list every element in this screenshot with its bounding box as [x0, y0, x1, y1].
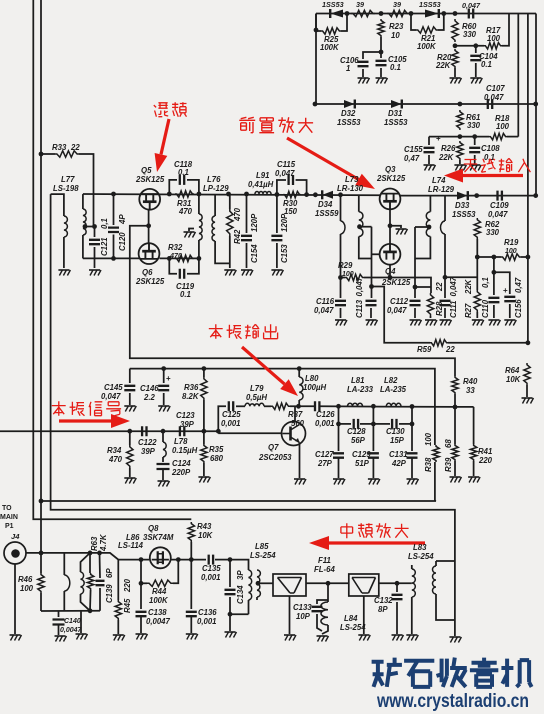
- svg-text:LR-130: LR-130: [337, 184, 364, 193]
- svg-text:C130: C130: [386, 427, 405, 436]
- svg-text:68: 68: [444, 439, 453, 448]
- svg-text:33: 33: [466, 386, 475, 395]
- svg-text:C138: C138: [148, 608, 167, 617]
- svg-text:D32: D32: [341, 109, 356, 118]
- svg-text:2SK125: 2SK125: [381, 278, 411, 287]
- ground C132: [392, 634, 403, 636]
- resistor R63 4.7K: [89, 553, 91, 573]
- capacitor C126 0.001: [315, 401, 319, 411]
- wire AGC diode row: [315, 103, 536, 105]
- svg-text:0.1: 0.1: [180, 290, 191, 299]
- svg-text:22: 22: [70, 143, 80, 152]
- svg-text:39P: 39P: [141, 447, 156, 456]
- red label 前置放大: [239, 117, 255, 132]
- svg-text:0,047: 0,047: [355, 276, 364, 296]
- ground C112: [410, 319, 421, 321]
- svg-text:Q8: Q8: [148, 524, 159, 533]
- red label 中频放大: [341, 523, 353, 538]
- svg-text:C110: C110: [481, 299, 490, 318]
- svg-text:L82: L82: [384, 376, 398, 385]
- svg-text:L79: L79: [250, 384, 264, 393]
- svg-text:LA-233: LA-233: [347, 385, 374, 394]
- svg-text:120P: 120P: [250, 213, 259, 232]
- capacitor C107 0.047: [488, 99, 492, 109]
- wire oscillator jog: [218, 406, 226, 431]
- wire link ground stub: [390, 226, 401, 228]
- svg-text:39: 39: [393, 0, 401, 9]
- resistor R43 10K: [188, 522, 194, 542]
- capacitor C138 0.0047: [136, 612, 147, 616]
- svg-text:27P: 27P: [317, 459, 333, 468]
- svg-text:C155: C155: [404, 145, 423, 154]
- resistor R23 10: [378, 19, 384, 37]
- svg-text:LR-129: LR-129: [428, 185, 455, 194]
- wire J4 ground leg: [14, 564, 16, 634]
- wire Q7 base row: [218, 432, 281, 434]
- svg-text:J4: J4: [11, 532, 20, 541]
- ground R20: [450, 77, 461, 79]
- wire box2 ground leg: [363, 596, 365, 634]
- svg-text:C133: C133: [293, 603, 312, 612]
- svg-text:56P: 56P: [351, 436, 366, 445]
- resistor R21 100K loop: [411, 14, 416, 31]
- ground L77 primary: [58, 269, 69, 271]
- svg-text:C115: C115: [277, 160, 296, 169]
- wire J4 row: [26, 553, 149, 560]
- svg-text:R42: R42: [233, 229, 242, 244]
- capacitor C125 0.001: [229, 401, 233, 411]
- svg-text:R34: R34: [107, 446, 122, 455]
- svg-text:L91: L91: [256, 171, 269, 180]
- ground C138: [136, 633, 147, 635]
- svg-text:0,047: 0,047: [314, 306, 334, 315]
- resistor R41 220: [473, 407, 475, 444]
- inductor L77 LS-198 primary: [51, 194, 64, 216]
- svg-text:100: 100: [342, 271, 354, 278]
- capacitor C111 0.047: [440, 301, 451, 305]
- svg-text:R40: R40: [463, 377, 478, 386]
- resistor R34 470: [129, 431, 131, 445]
- svg-text:LS-254: LS-254: [340, 623, 366, 632]
- wire box2 output: [379, 582, 412, 584]
- ground C153: [271, 269, 282, 271]
- svg-text:www.crystalradio.cn: www.crystalradio.cn: [376, 691, 529, 712]
- resistor R64 10K: [524, 363, 530, 385]
- svg-text:330: 330: [467, 121, 481, 130]
- ground C113: [366, 319, 377, 321]
- svg-text:R41: R41: [478, 447, 492, 456]
- inductor L80 100uH: [297, 366, 302, 371]
- capacitor C112 0.047: [414, 287, 416, 298]
- wire preamp output row: [400, 195, 536, 197]
- wire L85 output: [256, 581, 261, 586]
- capacitor C135 0.001: [209, 555, 213, 565]
- inductor L76 LP-129 primary: [198, 194, 200, 214]
- svg-text:470: 470: [233, 207, 242, 222]
- diode D31 1SS53: [391, 100, 402, 108]
- svg-text:2SK125: 2SK125: [135, 277, 165, 286]
- svg-text:4P: 4P: [118, 214, 127, 225]
- svg-text:8.2K: 8.2K: [182, 392, 200, 401]
- ground C133/L84: [317, 635, 328, 637]
- capacitor C123 39P: [180, 426, 184, 436]
- ground C154: [241, 269, 252, 271]
- svg-text:0,0047: 0,0047: [60, 627, 83, 634]
- wire FL link: [306, 582, 349, 584]
- capacitor C108 0.1: [474, 137, 476, 145]
- ground C127: [333, 478, 344, 480]
- capacitor C120 4P: [111, 192, 116, 197]
- red arrow IF: [329, 541, 425, 544]
- wire C125-L79: [236, 405, 245, 407]
- node mixer drain joints: [167, 192, 172, 197]
- wire supply bus x=528: [527, 14, 529, 344]
- svg-text:100K: 100K: [320, 43, 340, 52]
- wire Q4 gate line: [371, 227, 373, 287]
- capacitor C134 3P: [229, 560, 231, 587]
- node L73 primary top: [338, 192, 343, 197]
- capacitor C124 220P: [157, 464, 170, 469]
- capacitor C136 0.001: [190, 560, 192, 609]
- svg-text:22K: 22K: [464, 278, 473, 295]
- wire bus1: [41, 500, 436, 502]
- wire bus x=536: [535, 14, 537, 196]
- wire L74 primary drop: [414, 227, 416, 287]
- red label 天线输入: [464, 160, 477, 173]
- svg-text:100: 100: [487, 34, 501, 43]
- capacitor C145 0.047: [129, 369, 131, 383]
- capacitor C109 0.047: [498, 191, 502, 201]
- node AGC tap: [313, 192, 318, 197]
- svg-text:R26: R26: [441, 144, 456, 153]
- diode 1SS53 (top left): [331, 10, 344, 18]
- svg-text:3SK74M: 3SK74M: [143, 533, 174, 542]
- capacitor C146 2.2 electrolytic: [161, 366, 166, 371]
- svg-text:R29: R29: [338, 261, 353, 270]
- svg-text:150: 150: [284, 207, 298, 216]
- capacitor C131 42P: [407, 453, 418, 457]
- svg-text:C129: C129: [352, 450, 371, 459]
- svg-text:C121: C121: [100, 237, 109, 256]
- wire R33 row: [41, 153, 55, 155]
- resistor R19 100: [501, 254, 521, 260]
- wire Q4 source: [389, 265, 391, 278]
- svg-text:MAIN: MAIN: [0, 514, 18, 521]
- svg-text:C156: C156: [514, 299, 523, 318]
- svg-text:1SS53: 1SS53: [322, 0, 344, 9]
- inductor L85 secondary: [257, 570, 260, 597]
- red arrow antenna input: [463, 174, 523, 177]
- svg-text:470: 470: [169, 251, 182, 260]
- ground IF bus: [449, 636, 460, 638]
- capacitor C127 27P: [333, 453, 344, 457]
- svg-text:LS-254: LS-254: [250, 551, 276, 560]
- ground C131: [407, 478, 418, 480]
- wire Q3-Q4 link: [389, 209, 391, 244]
- capacitor C115 0.047 loop: [277, 180, 286, 195]
- svg-text:3P: 3P: [236, 570, 245, 580]
- inductor L74 secondary: [444, 196, 446, 221]
- svg-text:C132: C132: [374, 596, 393, 605]
- red label 混频: [154, 103, 168, 117]
- node Q7 collector: [296, 404, 301, 409]
- svg-text:R35: R35: [209, 445, 224, 454]
- wire mixer source rail: [83, 257, 139, 259]
- ground Q3/Q4 link: [396, 228, 407, 230]
- red arrow oscillator in: [59, 419, 111, 422]
- resistor R39 68: [454, 407, 456, 444]
- svg-text:LS-254: LS-254: [408, 552, 434, 561]
- wire top AGC rail: [316, 13, 536, 15]
- svg-text:C122: C122: [138, 438, 157, 447]
- svg-text:100: 100: [424, 432, 433, 446]
- wire Q5-Q6 link: [148, 210, 150, 244]
- svg-text:4.7K: 4.7K: [99, 533, 108, 552]
- svg-text:0,047: 0,047: [462, 1, 481, 10]
- wire R19 row: [477, 256, 501, 258]
- svg-text:R36: R36: [184, 383, 199, 392]
- capacitor C132 8P: [396, 583, 398, 592]
- wire L77 tap: [84, 226, 95, 228]
- capacitor C106 1: [363, 52, 381, 59]
- svg-text:2SK125: 2SK125: [135, 175, 165, 184]
- svg-text:39P: 39P: [180, 420, 195, 429]
- svg-text:C136: C136: [198, 608, 217, 617]
- transistor Q4 2SK125: [380, 244, 401, 265]
- ground R26: [454, 164, 465, 166]
- svg-text:C108: C108: [481, 144, 500, 153]
- ground L76 tap: [184, 231, 195, 233]
- resistor R29 100: [345, 274, 364, 280]
- ground C116: [335, 319, 346, 321]
- svg-text:10K: 10K: [198, 531, 214, 540]
- resistor R44 100K: [147, 580, 173, 586]
- svg-text:1SS53: 1SS53: [452, 210, 476, 219]
- svg-text:C109: C109: [490, 201, 509, 210]
- node R35 tap: [202, 429, 207, 434]
- svg-text:0,047: 0,047: [101, 392, 121, 401]
- svg-text:330: 330: [486, 228, 500, 237]
- svg-text:1SS53: 1SS53: [384, 118, 408, 127]
- ground box2: [358, 634, 369, 636]
- resistor R60 330: [452, 19, 458, 42]
- svg-text:22: 22: [445, 345, 455, 354]
- ground Q7: [294, 478, 305, 480]
- svg-text:0.15µH: 0.15µH: [172, 446, 198, 455]
- resistor R18 100: [489, 133, 507, 139]
- ground C105: [376, 77, 387, 79]
- transistor Q8 3SK74M: [150, 547, 171, 568]
- svg-text:C125: C125: [222, 410, 241, 419]
- svg-text:22K: 22K: [438, 153, 455, 162]
- capacitor 0.047 (top): [469, 9, 473, 19]
- ground C129: [368, 478, 379, 480]
- svg-text:R44: R44: [152, 587, 167, 596]
- ground R41: [468, 476, 479, 478]
- capacitor C104 0.1: [475, 46, 477, 53]
- svg-text:0,001: 0,001: [315, 419, 335, 428]
- svg-text:C113: C113: [355, 299, 364, 318]
- svg-text:+: +: [503, 286, 508, 295]
- svg-text:R43: R43: [197, 522, 212, 531]
- resistor R37 560: [271, 403, 290, 409]
- svg-text:0,047: 0,047: [488, 210, 508, 219]
- wire C131 leg: [411, 407, 413, 452]
- wire AGC bus x=518: [517, 14, 519, 137]
- svg-text:Q6: Q6: [142, 268, 153, 277]
- ground C110: [488, 319, 499, 321]
- capacitor C133 10P: [317, 600, 328, 604]
- svg-text:L74: L74: [432, 176, 446, 185]
- ground J4: [10, 634, 21, 636]
- wire L74 tap: [427, 225, 432, 230]
- wire C133 L84 branch: [327, 583, 329, 600]
- svg-text:C111: C111: [449, 301, 458, 318]
- red label 本振信号: [52, 401, 66, 415]
- resistor R35 680: [203, 431, 205, 444]
- resistor R32 470: [175, 255, 194, 261]
- svg-text:470: 470: [178, 207, 193, 216]
- svg-text:39: 39: [356, 0, 364, 9]
- svg-text:D31: D31: [388, 109, 402, 118]
- red arrow to Q5: [161, 119, 169, 154]
- wire Q8 drain row: [171, 559, 206, 561]
- wire box1 ground leg: [289, 596, 291, 634]
- svg-text:C123: C123: [176, 411, 195, 420]
- resistor R36 8.2K: [202, 366, 207, 371]
- capacitor C118 0.1: [169, 180, 177, 194]
- resistor R30 150: [283, 191, 301, 197]
- svg-text:R33: R33: [52, 143, 67, 152]
- wire L76 tap ground: [189, 229, 194, 232]
- inductor L91 0.41uH: [255, 192, 271, 195]
- resistor R42 470: [226, 192, 231, 197]
- watermark crystalradio logo: [372, 658, 402, 687]
- svg-text:R45: R45: [123, 598, 132, 613]
- inductor L84 LS-254: [327, 600, 329, 602]
- ground C156: [504, 319, 515, 321]
- svg-text:220P: 220P: [171, 468, 191, 477]
- wire Q7 emitter: [299, 443, 301, 479]
- svg-text:0,047: 0,047: [275, 169, 295, 178]
- capacitor C154 120P: [244, 192, 249, 197]
- svg-text:L78: L78: [174, 437, 188, 446]
- ground L83: [406, 634, 417, 636]
- wire left bus A (x=33): [33, 0, 191, 519]
- resistor R28 22: [427, 293, 433, 316]
- resistor R31 470: [175, 191, 194, 197]
- svg-text:R64: R64: [505, 366, 520, 375]
- wire C112 node stub: [415, 286, 431, 288]
- svg-text:R27: R27: [464, 303, 473, 318]
- svg-text:C153: C153: [280, 244, 289, 263]
- capacitor C119 0.1: [169, 258, 177, 273]
- capacitor C155 0.47 electrolytic: [428, 137, 430, 145]
- inductor L81 LA-233: [348, 403, 363, 406]
- svg-text:L81: L81: [351, 376, 364, 385]
- ground C108: [469, 164, 480, 166]
- svg-text:P1: P1: [5, 523, 14, 530]
- svg-text:LS-114: LS-114: [118, 541, 144, 550]
- inductor L79 0.5uH: [245, 403, 264, 406]
- svg-text:100: 100: [20, 584, 34, 593]
- wire C156 branch: [494, 272, 510, 294]
- wire oscillator supply rail: [130, 369, 435, 445]
- capacitor C128 56P: [354, 419, 358, 429]
- svg-text:2.2: 2.2: [143, 393, 156, 402]
- svg-text:C120: C120: [118, 232, 127, 251]
- svg-text:R28: R28: [435, 301, 444, 316]
- wire left bus B (x=41): [40, 0, 42, 553]
- ground C121: [89, 269, 100, 271]
- ground C136: [186, 633, 197, 635]
- svg-text:0,001: 0,001: [221, 419, 241, 428]
- svg-text:51P: 51P: [355, 459, 370, 468]
- svg-text:C154: C154: [250, 244, 259, 263]
- svg-text:6P: 6P: [105, 568, 114, 578]
- svg-text:C124: C124: [172, 459, 191, 468]
- diode D33 1SS53: [457, 192, 468, 200]
- svg-text:10P: 10P: [296, 612, 311, 621]
- svg-text:FL-64: FL-64: [314, 565, 335, 574]
- svg-text:1SS59: 1SS59: [315, 209, 339, 218]
- svg-text:R59: R59: [417, 345, 432, 354]
- wire secondary gnd stub: [80, 611, 82, 633]
- svg-text:R38: R38: [424, 457, 433, 472]
- svg-text:C139: C139: [105, 584, 114, 603]
- resistor R45 220: [117, 560, 119, 600]
- red arrow to R37: [242, 347, 285, 384]
- svg-text:R23: R23: [389, 22, 404, 31]
- filter F11 box2: [349, 574, 379, 596]
- svg-text:D34: D34: [318, 200, 333, 209]
- ground R34: [124, 477, 135, 479]
- resistor R26 22K: [457, 141, 463, 160]
- transistor Q6 2SK125: [139, 243, 160, 264]
- svg-text:220: 220: [478, 456, 493, 465]
- svg-text:LS-198: LS-198: [53, 184, 79, 193]
- svg-text:0,1: 0,1: [481, 277, 490, 288]
- svg-text:L85: L85: [255, 542, 269, 551]
- svg-text:0.1: 0.1: [178, 168, 189, 177]
- capacitor C129 51P: [368, 453, 379, 457]
- capacitor C121 0.1: [94, 227, 96, 238]
- svg-text:LP-129: LP-129: [203, 184, 229, 193]
- svg-text:TO: TO: [2, 505, 12, 512]
- svg-text:C112: C112: [390, 297, 409, 306]
- svg-text:C140: C140: [64, 618, 81, 625]
- ground box1: [284, 634, 295, 636]
- svg-text:0,47: 0,47: [404, 154, 420, 163]
- svg-text:22K: 22K: [435, 61, 452, 70]
- resistor R62 330: [474, 218, 480, 239]
- resistor R46 100: [40, 553, 42, 573]
- capacitor C105 0.1: [380, 52, 382, 58]
- red label 本振输出: [209, 324, 223, 338]
- inductor L83 secondary: [436, 560, 455, 562]
- svg-text:L83: L83: [413, 543, 427, 552]
- wire osc filter row: [320, 405, 474, 408]
- svg-text:10: 10: [391, 31, 400, 40]
- resistor R20 22K: [452, 49, 458, 68]
- capacitor C113 0.047: [371, 287, 373, 299]
- svg-text:D33: D33: [455, 201, 470, 210]
- wire L79-R37: [264, 405, 271, 407]
- svg-text:R19: R19: [504, 238, 519, 247]
- wire L73 tap: [357, 224, 362, 229]
- svg-text:330: 330: [463, 30, 477, 39]
- svg-text:100K: 100K: [417, 42, 437, 51]
